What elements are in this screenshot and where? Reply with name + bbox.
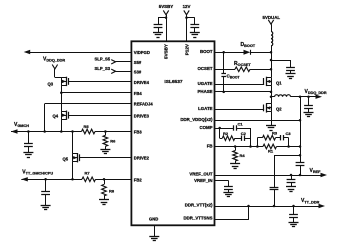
wire 5VDUAL rail (271, 46, 273, 78)
wire diode to 5VDUAL rail (250, 52, 271, 54)
capacitor C3 (280, 135, 282, 140)
wire 12V to P12V pin (186, 15, 188, 42)
svg-text:UGATE: UGATE (198, 81, 213, 86)
resistor ROCSET (235, 67, 250, 72)
svg-text:PHASE: PHASE (198, 89, 213, 94)
resistor R1 (263, 144, 277, 149)
wire cap to ground (158, 27, 160, 32)
wire OCSET pin to resistor (215, 69, 236, 71)
wire cap to VTT line (274, 190, 276, 206)
12V supply arrow (184, 10, 189, 14)
wire BOOT pin to diode (215, 52, 244, 54)
svg-text:R6: R6 (110, 139, 116, 144)
capacitor 12V decoupling (190, 24, 199, 26)
wire phase rail (271, 85, 273, 104)
svg-text:R3: R3 (272, 131, 278, 136)
wire Q3 source to Q4 drain (61, 85, 63, 111)
resistor R8 vertical (102, 184, 107, 196)
wire VREF bypass cap (291, 175, 293, 180)
wire VTT_GMCH rail left (21, 179, 82, 181)
ground 5VDUAL cap (286, 73, 296, 75)
svg-text:5VSBY: 5VSBY (159, 4, 173, 9)
ground VREF_IN cap (223, 192, 233, 194)
svg-text:FB: FB (207, 143, 213, 148)
wire cap to ground (45, 195, 47, 206)
wire VIDPGD output (30, 52, 131, 54)
node VIDPGD arrow (24, 50, 31, 54)
transistor Q2 low-side MOSFET (263, 105, 265, 112)
capacitor CBOOT (221, 73, 226, 75)
ground 12V cap (190, 32, 200, 34)
svg-text:FB4: FB4 (134, 91, 143, 96)
svg-text:R7: R7 (85, 170, 91, 175)
wire comp node to FB line (250, 128, 252, 147)
ground Q2 source (266, 125, 276, 127)
wire VGMCH cap branch (28, 132, 30, 144)
wire SLP_S3 to S3# pin (116, 71, 132, 73)
wire CBOOT vertical (223, 52, 225, 73)
wire cap to ground (290, 70, 292, 74)
wire 5VDUAL to inductor (271, 24, 273, 31)
wire cap to ground (291, 183, 293, 187)
resistor R3 (263, 135, 276, 140)
ground R8 (99, 199, 109, 201)
svg-text:REFADJ4: REFADJ4 (134, 102, 154, 107)
5VDUAL supply arrow (268, 20, 273, 24)
wire VGMCH rail left (11, 131, 82, 133)
svg-text:FB2: FB2 (134, 177, 143, 182)
wire cap to ground (308, 109, 310, 113)
wire R4 to ground (235, 161, 237, 164)
svg-text:DRIVE2: DRIVE2 (134, 156, 150, 161)
resistor R7 (82, 177, 96, 182)
wire 5VSBY to P5VSBY pin (166, 15, 168, 42)
svg-text:R2: R2 (223, 131, 229, 136)
svg-text:R1: R1 (268, 149, 274, 154)
wire GND pin (154, 225, 156, 236)
wire R8 to ground (104, 196, 106, 200)
svg-text:R5: R5 (84, 124, 90, 129)
capacitor C2 (241, 136, 243, 141)
wire jog to VTT cap (274, 155, 300, 157)
wire Q5 drain up to rail (72, 132, 74, 154)
wire coil to VDDQ node (291, 96, 316, 98)
svg-text:GND: GND (149, 217, 158, 222)
wire cap to ground (293, 217, 295, 222)
wire R6 branch (105, 132, 107, 136)
capacitor VTT output (289, 214, 298, 216)
svg-text:DDR_VDDQ(x2): DDR_VDDQ(x2) (180, 117, 213, 122)
svg-text:5VSBY: 5VSBY (163, 44, 168, 59)
svg-text:DRIVE4: DRIVE4 (134, 80, 150, 85)
transistor Q4 pass FET (68, 112, 70, 119)
svg-text:DRIVE3: DRIVE3 (134, 113, 150, 118)
wire R2 to C2 (235, 138, 242, 140)
wire VTT_GMCH cap branch (45, 179, 47, 191)
resistor R5 (82, 129, 96, 134)
svg-text:R4: R4 (240, 153, 246, 158)
svg-text:OCSET: OCSET (198, 66, 213, 71)
svg-text:VIDPGD: VIDPGD (134, 50, 150, 55)
svg-text:DDR_VTT(x2): DDR_VTT(x2) (185, 202, 213, 207)
ground VTT cap (289, 222, 299, 224)
node VREF arrow (321, 173, 328, 177)
capacitor 5VDUAL rail decoupling (286, 67, 295, 69)
wire R3 to C3 (276, 137, 281, 139)
capacitor VREF_IN filter (224, 186, 233, 188)
wire DDR_VTT line (215, 206, 319, 208)
wire C1 to comp node (237, 128, 251, 130)
wire rail cap branch (271, 60, 291, 62)
ground VTT_GMCH cap (41, 205, 51, 207)
VDDQ_DDR supply arrow (52, 65, 57, 69)
wire VREF_OUT line (215, 175, 321, 177)
wire DRIVE4 to Q3 gate (69, 81, 132, 83)
svg-text:Q4: Q4 (53, 114, 59, 119)
transistor Q1 high-side MOSFET (263, 78, 265, 85)
wire FB4 line (61, 92, 131, 94)
ground GND pin (149, 236, 159, 238)
wire Q4 source to GMCH rail (61, 119, 63, 131)
svg-text:Q5: Q5 (63, 156, 69, 161)
wire FB node to R3 branch (257, 138, 259, 147)
wire R6 to ground (105, 146, 107, 149)
svg-text:VREF_IN: VREF_IN (194, 178, 212, 183)
node VDDQ_DDR output arrow (316, 95, 323, 99)
capacitor VGMCH bypass (24, 143, 33, 145)
ground R4 (230, 163, 240, 165)
svg-text:BOOT: BOOT (200, 49, 213, 54)
wire 12V cap branch (187, 17, 195, 19)
wire REFADJ4 line (45, 103, 132, 105)
wire resistor to 5VDUAL rail (250, 69, 271, 71)
wire DDR_VTTSNS feedback (215, 219, 249, 221)
svg-text:ISL6537: ISL6537 (164, 79, 182, 85)
svg-text:FB3: FB3 (134, 130, 143, 135)
svg-text:Q3: Q3 (48, 82, 54, 87)
capacitor VREF bypass (287, 179, 296, 181)
wire 5VSBY cap branch (158, 17, 166, 19)
svg-text:LGATE: LGATE (198, 106, 212, 111)
wire R1 to divider vertical (277, 146, 301, 148)
wire VREF_IN line (215, 180, 229, 182)
node SLP_S3 chevron (111, 69, 115, 73)
wire COMP to C1 (220, 128, 234, 130)
svg-text:C3: C3 (286, 131, 292, 136)
resistor R4 vertical (233, 151, 238, 162)
wire Q5 source down to rail (72, 162, 74, 180)
node SLP_S5 chevron (111, 60, 115, 64)
capacitor C1 (233, 125, 235, 130)
wire LGATE to Q2 gate (215, 109, 265, 111)
svg-text:S3#: S3# (134, 69, 142, 74)
svg-text:SLP_S3: SLP_S3 (95, 66, 111, 71)
transistor Q3 pass FET (68, 78, 70, 85)
node VGMCH arrow (11, 129, 18, 133)
wire FB to R4 (235, 147, 237, 151)
5VSBY supply arrow (163, 10, 168, 14)
svg-text:C2: C2 (241, 131, 247, 136)
wire cap to ground (228, 190, 230, 193)
wire VTT output cap (293, 206, 295, 214)
capacitor VDDQ node to VTT (270, 187, 279, 189)
wire supply to Q3 drain (54, 69, 56, 78)
svg-text:COMP: COMP (199, 125, 212, 130)
wire PHASE pin to phase node (215, 91, 272, 93)
ground R6 (100, 149, 110, 151)
ground VREF cap (286, 186, 296, 188)
wire Q2 source to ground (271, 112, 273, 126)
wire cap to ground (194, 27, 196, 32)
capacitor VDDQ output (304, 105, 313, 107)
wire R7 to FB2 pin (96, 179, 132, 181)
capacitor 5VSBY decoupling (154, 24, 163, 26)
wire cap to VREF line (300, 166, 302, 175)
wire FB pin line (215, 146, 258, 148)
wire VDDQ divider vertical (300, 97, 302, 163)
wire FB node to R1 (257, 146, 263, 148)
svg-text:R8: R8 (109, 189, 115, 194)
svg-text:SLP_S5: SLP_S5 (95, 57, 111, 62)
wire DDR_VDDQ pin to output node (215, 120, 301, 122)
wire SLP_S5 to S5# pin (116, 61, 132, 63)
svg-text:P12V: P12V (184, 43, 189, 55)
wire VDDQ output cap (308, 97, 310, 106)
wire DRIVE3 to Q4 gate (69, 115, 132, 117)
wire COMP pin (215, 128, 220, 130)
wire UGATE to Q1 gate (215, 84, 265, 86)
op-amp U1 ISL6537 controller IC body (131, 41, 214, 225)
svg-text:C1: C1 (238, 122, 244, 127)
capacitor VTT_GMCH bypass (41, 191, 50, 193)
wire R8 branch (104, 179, 106, 184)
inductor L2 output (275, 95, 291, 97)
inductor L1 input filter (271, 32, 273, 46)
node VTT_DDR arrow (319, 204, 326, 208)
svg-text:DDR_VTTSNS: DDR_VTTSNS (184, 215, 213, 220)
wire COMP lower branch (219, 128, 221, 138)
capacitor divider to VREF line (296, 162, 305, 164)
transistor Q5 pass FET (79, 154, 81, 161)
ground 5VSBY cap (153, 32, 163, 34)
node VTT_GMCH arrow (21, 177, 28, 181)
resistor R6 vertical (103, 135, 108, 146)
svg-text:12V: 12V (183, 4, 191, 9)
wire C2 to comp node (244, 138, 250, 140)
ground VGMCH cap (23, 152, 33, 154)
svg-text:Q1: Q1 (276, 80, 282, 85)
resistor R2 (222, 136, 235, 141)
svg-text:Q2: Q2 (276, 106, 282, 111)
wire R5 to FB3 pin (95, 131, 131, 133)
svg-text:S5#: S5# (134, 60, 142, 65)
wire C3 to node (283, 137, 288, 139)
diode DBOOT (244, 50, 251, 55)
svg-text:VREF_OUT: VREF_OUT (189, 172, 213, 177)
ground VDDQ cap (304, 112, 314, 114)
wire DRIVE2 to Q5 gate (80, 157, 131, 159)
wire cap to ground (28, 146, 30, 153)
wire phase coil lead (271, 96, 275, 98)
svg-text:5VDUAL: 5VDUAL (263, 15, 281, 20)
